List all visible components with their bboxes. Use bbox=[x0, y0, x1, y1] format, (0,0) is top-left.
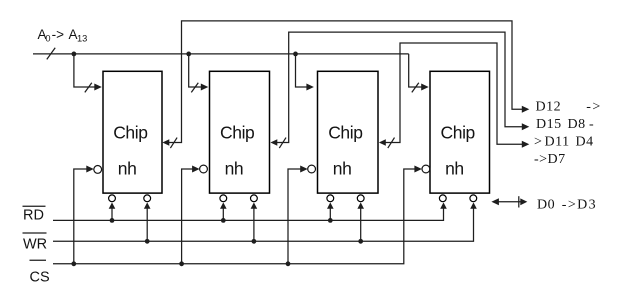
arrow D15 row bbox=[522, 123, 530, 130]
svg-text:->D3: ->D3 bbox=[562, 198, 597, 213]
svg-text:D0: D0 bbox=[537, 198, 555, 213]
wire WR line bbox=[53, 208, 474, 242]
arrow RD chip4 bbox=[440, 202, 447, 208]
node WR j2 bbox=[252, 239, 257, 244]
svg-text:A0->A13: A0->A13 bbox=[38, 27, 88, 44]
svg-text:nh: nh bbox=[445, 159, 464, 179]
node CS j1 bbox=[71, 261, 76, 266]
svg-text:nh: nh bbox=[118, 159, 137, 179]
arrow D12 row bbox=[522, 106, 530, 113]
slash data chip1 bbox=[170, 138, 177, 149]
bubble CS chip4 bbox=[422, 165, 430, 173]
arrow CS chip1 bbox=[86, 166, 94, 173]
node WR j3 bbox=[358, 239, 363, 244]
chip U2 bbox=[210, 71, 270, 193]
wire address drop chip1 bbox=[74, 54, 95, 87]
wire CS line bbox=[53, 169, 418, 264]
svg-text:->D7: ->D7 bbox=[534, 152, 566, 167]
arrow left head D0 bus bbox=[491, 198, 499, 205]
arrow addr chip1 bbox=[94, 84, 102, 91]
wire address drop chip4 (bus end) bbox=[409, 54, 422, 87]
arrow WR chip3 bbox=[357, 202, 364, 208]
node bus junction 3 bbox=[293, 52, 298, 57]
bubble RD chip3 bbox=[327, 195, 334, 202]
overline RD bbox=[23, 205, 46, 207]
bubble WR chip3 bbox=[357, 195, 364, 202]
svg-text:Chip: Chip bbox=[441, 123, 475, 143]
wire CS branch chip1 bbox=[74, 169, 90, 264]
tick D0 bus bbox=[518, 196, 520, 207]
arrow RD chip2 bbox=[220, 202, 227, 208]
arrow CS chip4 bbox=[414, 166, 422, 173]
chip U4 bbox=[430, 71, 490, 193]
arrow data into chip2 bbox=[270, 139, 277, 145]
arrow right head D0 bus bbox=[520, 198, 527, 205]
node WR j1 bbox=[145, 239, 150, 244]
arrow WR chip1 bbox=[144, 202, 151, 208]
node CS j3 bbox=[286, 261, 291, 266]
arrow WR chip2 bbox=[251, 202, 258, 208]
arrow addr chip2 bbox=[201, 84, 209, 91]
chip U1 bbox=[103, 71, 162, 193]
svg-text:->: -> bbox=[586, 100, 602, 115]
arrow D11 row bbox=[522, 141, 530, 148]
wire RD branch chip1 bbox=[111, 208, 113, 221]
slash data chip2 bbox=[279, 138, 286, 149]
node RD j3 bbox=[328, 218, 333, 223]
svg-text:Chip: Chip bbox=[113, 123, 147, 143]
arrow RD chip1 bbox=[109, 202, 116, 208]
svg-text:Chip: Chip bbox=[220, 123, 254, 143]
slash data chip3 bbox=[388, 138, 395, 149]
wire RD line bbox=[53, 208, 444, 221]
bubble WR chip4 bbox=[470, 195, 477, 202]
svg-text:>: > bbox=[534, 135, 542, 150]
bubble RD chip2 bbox=[220, 195, 227, 202]
svg-text:D11: D11 bbox=[545, 135, 570, 150]
node bus junction 2 bbox=[186, 52, 191, 57]
wire address bus bbox=[33, 53, 409, 55]
arrow CS chip2 bbox=[192, 166, 200, 173]
bubble CS chip1 bbox=[94, 166, 102, 174]
overline CS bbox=[30, 259, 47, 261]
arrow data into chip1 bbox=[162, 139, 169, 145]
wire data chip3 to D11 row bbox=[385, 43, 523, 144]
svg-text:WR: WR bbox=[23, 237, 47, 253]
svg-text:D8: D8 bbox=[568, 117, 586, 132]
svg-text:-: - bbox=[589, 117, 594, 132]
wire data chip2 to D15 row bbox=[277, 32, 524, 142]
arrow RD chip3 bbox=[327, 202, 334, 208]
arrow CS chip3 bbox=[300, 166, 308, 173]
wire RD branch chip2 bbox=[222, 208, 224, 221]
wire data chip1 to D12 row bbox=[169, 21, 524, 143]
wire address drop chip3 bbox=[296, 54, 308, 87]
wire address drop chip2 bbox=[189, 54, 202, 87]
overline WR bbox=[23, 232, 47, 234]
svg-text:D15: D15 bbox=[536, 117, 562, 132]
arrow data into chip3 bbox=[379, 139, 386, 145]
svg-text:D4: D4 bbox=[576, 135, 594, 150]
arrow addr chip3 bbox=[306, 84, 314, 91]
wire WR branch chip3 bbox=[360, 208, 362, 242]
bubble WR chip2 bbox=[251, 195, 258, 202]
slash addr chip4 bbox=[412, 83, 419, 93]
slash addr chip2 bbox=[191, 83, 198, 93]
arrow WR chip4 bbox=[470, 202, 477, 208]
bubble RD chip4 bbox=[439, 195, 446, 202]
slash addr chip1 bbox=[85, 83, 92, 93]
wire RD branch chip3 bbox=[329, 208, 331, 221]
arrow addr chip4 bbox=[421, 84, 429, 91]
bus slash bbox=[47, 48, 55, 60]
wire CS branch chip2 bbox=[182, 169, 196, 264]
node CS j2 bbox=[179, 261, 184, 266]
wire data chip4 double arrow D0-D3 bbox=[494, 201, 524, 203]
node RD j2 bbox=[221, 218, 226, 223]
bubble RD chip1 bbox=[109, 195, 116, 202]
svg-text:nh: nh bbox=[225, 159, 244, 179]
bubble CS chip3 bbox=[308, 165, 316, 173]
svg-text:Chip: Chip bbox=[328, 123, 362, 143]
wire WR branch chip1 bbox=[146, 208, 148, 242]
wire WR branch chip2 bbox=[253, 208, 255, 242]
node bus junction 1 bbox=[72, 52, 77, 57]
svg-text:RD: RD bbox=[23, 208, 44, 224]
bubble WR chip1 bbox=[144, 195, 151, 202]
svg-text:CS: CS bbox=[30, 270, 50, 286]
chip U3 bbox=[318, 71, 379, 193]
node RD j1 bbox=[110, 218, 115, 223]
bubble CS chip2 bbox=[200, 165, 208, 173]
wire CS branch chip3 bbox=[288, 169, 303, 264]
svg-text:D12: D12 bbox=[536, 100, 562, 115]
svg-text:nh: nh bbox=[333, 159, 352, 179]
